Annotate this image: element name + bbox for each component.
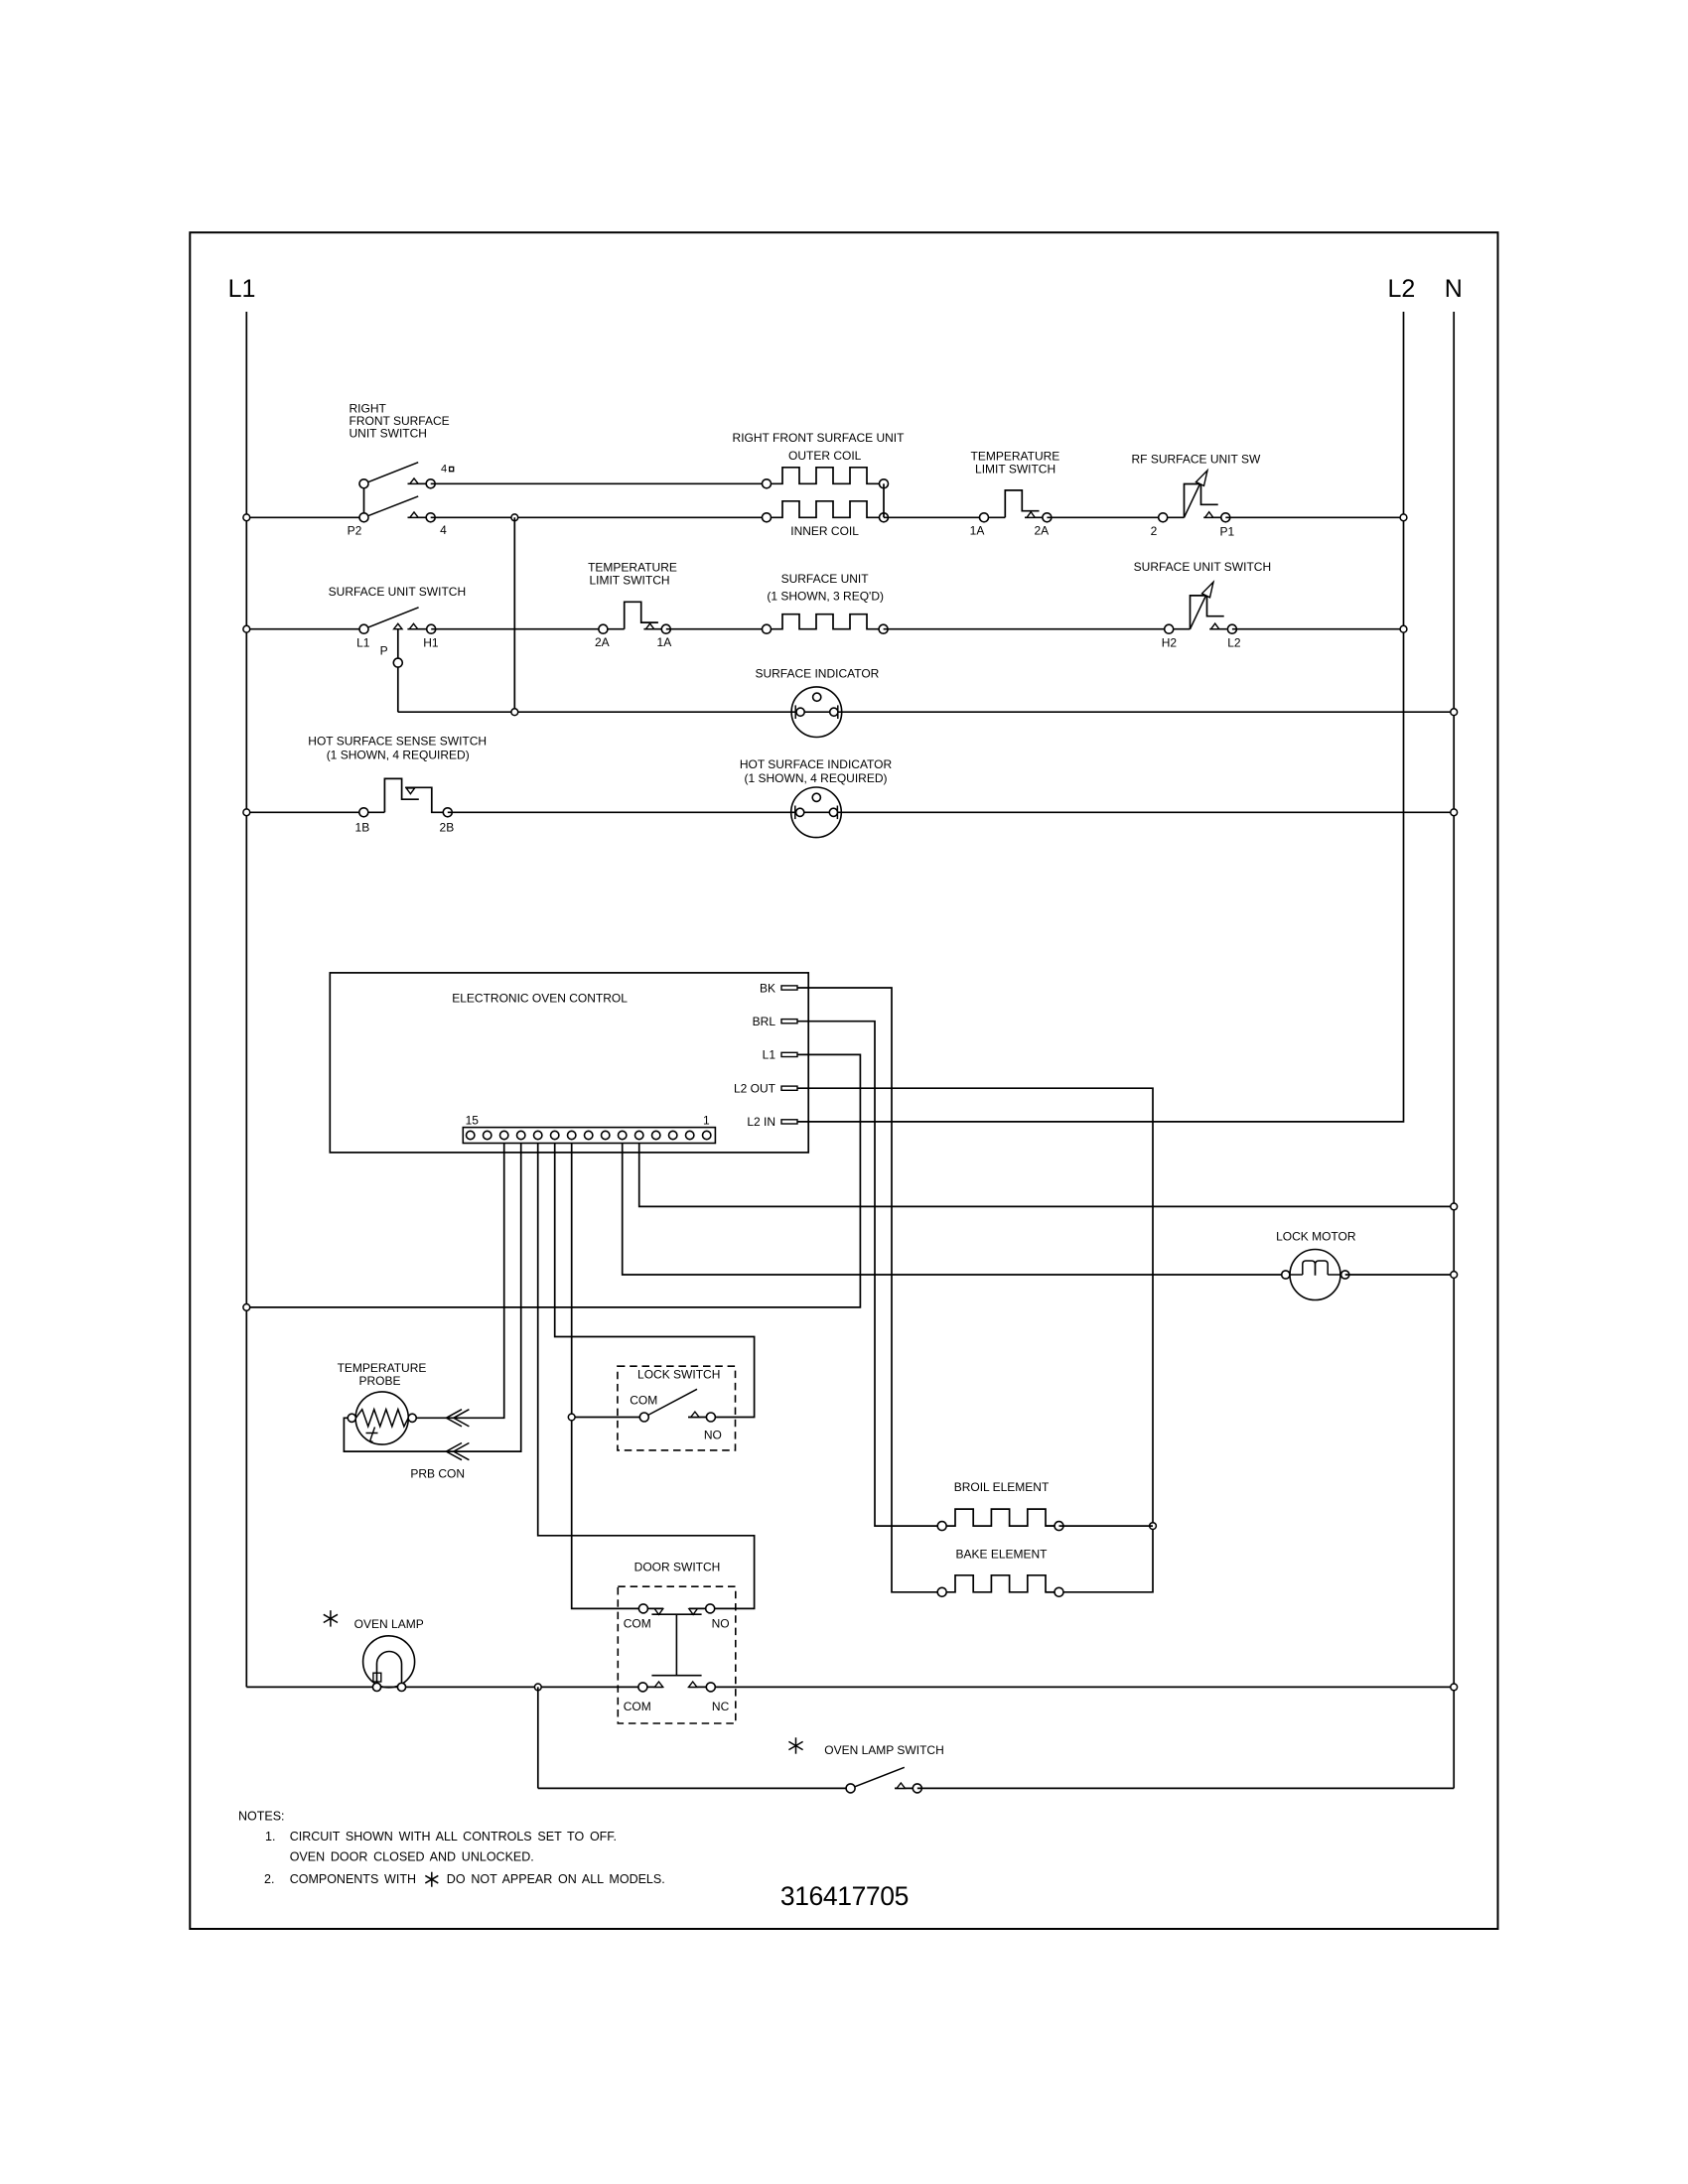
terminal H2 (1165, 624, 1174, 633)
svg-text:H2: H2 (1162, 636, 1178, 650)
asterisk oven lamp switch (795, 1737, 797, 1753)
switch surface unit switch right (1169, 628, 1190, 630)
svg-text:LOCK MOTOR: LOCK MOTOR (1276, 1230, 1356, 1244)
terminal EOC BRL (781, 1020, 797, 1024)
terminal EOC L2 OUT (781, 1086, 797, 1090)
terminal lock COM (639, 1413, 648, 1422)
svg-text:COMPONENTS WITH: COMPONENTS WITH (290, 1872, 416, 1886)
terminal EOC L2 IN (781, 1120, 797, 1124)
wire 1A to surface unit coil (666, 628, 767, 630)
terminal P (393, 658, 402, 667)
svg-text:DO NOT APPEAR ON ALL MODELS.: DO NOT APPEAR ON ALL MODELS. (447, 1872, 665, 1886)
box electronic oven control (330, 973, 808, 1153)
svg-text:RIGHT FRONT SURFACE UNIT: RIGHT FRONT SURFACE UNIT (733, 431, 906, 445)
door switch actuator (651, 1613, 701, 1615)
terminal probe left (348, 1414, 355, 1422)
svg-text:NOTES:: NOTES: (238, 1810, 285, 1824)
svg-text:P1: P1 (1219, 525, 1234, 539)
junction L1 row1 (243, 514, 250, 521)
switch S1 lower pole blade (364, 496, 419, 517)
wire P1 to L2 bus (1225, 516, 1403, 518)
svg-text:UNIT SWITCH: UNIT SWITCH (350, 426, 427, 440)
terminal oven lamp right (397, 1683, 405, 1691)
junction N y1215 (1451, 1203, 1458, 1210)
wire 4 to inner coil (431, 516, 767, 518)
terminal lock motor right (1341, 1271, 1349, 1279)
svg-text:1A: 1A (970, 524, 985, 538)
switch hot surface sense switch (363, 811, 384, 813)
resistor inner coil (767, 501, 883, 518)
wire oven lamp row (246, 1686, 662, 1688)
junction lock row pin7 (568, 1414, 575, 1421)
junction broil L2 (1150, 1523, 1157, 1530)
svg-text:L1: L1 (763, 1048, 776, 1062)
lamp hot surface indicator (791, 787, 842, 838)
svg-text:NC: NC (712, 1700, 730, 1713)
svg-text:HOT SURFACE INDICATOR: HOT SURFACE INDICATOR (740, 757, 893, 771)
wire broil right to junction (1059, 1525, 1154, 1527)
terminal lock motor left (1282, 1271, 1290, 1279)
terminal P1 (1221, 513, 1230, 522)
svg-text:RF SURFACE UNIT SW: RF SURFACE UNIT SW (1132, 452, 1261, 466)
svg-text:(1 SHOWN, 3 REQ'D): (1 SHOWN, 3 REQ'D) (767, 589, 884, 603)
svg-text:HOT SURFACE SENSE SWITCH: HOT SURFACE SENSE SWITCH (308, 735, 487, 749)
connector chevrons lower (446, 1443, 462, 1460)
contact triangle door lower NC (689, 1682, 697, 1687)
svg-text:TEMPERATURE: TEMPERATURE (971, 450, 1060, 464)
wire L1 bus (245, 312, 247, 1687)
svg-text:BK: BK (760, 981, 775, 995)
wire H1 to 2A row2 (431, 628, 603, 630)
wire L2 bus (797, 312, 1404, 1122)
svg-text:(1 SHOWN, 4 REQUIRED): (1 SHOWN, 4 REQUIRED) (744, 771, 887, 785)
resistor bake element (942, 1575, 1059, 1592)
svg-text:COM: COM (624, 1617, 651, 1631)
junction row3 x518 (511, 709, 518, 716)
junction L1 x248 y1317 (243, 1304, 250, 1311)
svg-text:TEMPERATURE: TEMPERATURE (338, 1361, 427, 1375)
svg-text:2A: 2A (1034, 524, 1049, 538)
terminal bake left (937, 1587, 946, 1596)
terminal broil left (937, 1522, 946, 1531)
resistor temperature probe (355, 1392, 408, 1444)
contact triangle door upper COM (654, 1609, 662, 1615)
svg-text:OUTER COIL: OUTER COIL (788, 449, 862, 463)
wire L2 contact to L2 bus (1232, 628, 1404, 630)
junction L1 row4 (243, 809, 250, 816)
svg-text:PROBE: PROBE (358, 1374, 400, 1388)
terminal 2A row1 (1043, 513, 1052, 522)
svg-text:DOOR SWITCH: DOOR SWITCH (634, 1560, 721, 1573)
wire lock row feed (572, 1417, 640, 1419)
junction N lock motor (1451, 1272, 1458, 1279)
terminal door upper COM (638, 1604, 647, 1613)
svg-text:OVEN LAMP: OVEN LAMP (354, 1617, 424, 1631)
terminal S1 upper pole (359, 479, 368, 488)
svg-text:NO: NO (712, 1617, 730, 1631)
switch temperature limit switch row2 (603, 628, 624, 630)
contact triangle H1 (407, 628, 426, 630)
terminal P2 (359, 513, 368, 522)
connector chevrons upper (446, 1410, 462, 1427)
junction L1 row2 (243, 625, 250, 632)
terminal door upper NO (706, 1604, 715, 1613)
terminal surface unit left (763, 624, 772, 633)
svg-text:BAKE ELEMENT: BAKE ELEMENT (955, 1548, 1048, 1562)
terminal door lower NC (706, 1683, 715, 1692)
wire row3 P lead to N (398, 711, 1454, 713)
svg-text:2.: 2. (264, 1872, 274, 1886)
junction lamp row x542 (534, 1684, 541, 1691)
svg-text:L1: L1 (228, 275, 256, 303)
svg-text:OVEN DOOR CLOSED AND UNLOCKED.: OVEN DOOR CLOSED AND UNLOCKED. (290, 1849, 534, 1863)
terminal oven lamp left (372, 1683, 380, 1691)
terminal 2 (1159, 513, 1168, 522)
wire row1 junction down to row3 (513, 517, 515, 712)
svg-text:INNER COIL: INNER COIL (790, 524, 859, 538)
wire S1 pole link (363, 483, 365, 517)
terminal outer coil left (763, 479, 772, 488)
svg-text:LIMIT SWITCH: LIMIT SWITCH (975, 463, 1055, 477)
wire lamp row to lamp switch (537, 1687, 539, 1788)
wire row1 L1 to P2 (246, 516, 363, 518)
terminal surface unit right (879, 624, 888, 633)
svg-text:15: 15 (466, 1114, 480, 1128)
svg-text:1A: 1A (657, 635, 672, 649)
terminal broil right (1055, 1522, 1063, 1531)
wire EOC L1 to L1 bus (246, 1054, 860, 1307)
wire inner coil to 1A (884, 516, 984, 518)
terminal inner coil left (763, 513, 772, 522)
svg-text:1: 1 (703, 1114, 710, 1128)
box door switch dashed (618, 1586, 736, 1723)
svg-text:BROIL ELEMENT: BROIL ELEMENT (954, 1480, 1050, 1494)
lamp oven lamp (363, 1636, 415, 1688)
svg-text:ELECTRONIC OVEN CONTROL: ELECTRONIC OVEN CONTROL (452, 992, 628, 1006)
motor lock motor (1290, 1250, 1340, 1300)
svg-text:COM: COM (630, 1394, 657, 1408)
svg-text:P2: P2 (348, 524, 362, 538)
terminal inner coil right (880, 513, 889, 522)
wire 2A to RF switch (1047, 516, 1163, 518)
terminal EOC L1 (781, 1052, 797, 1056)
wire lock motor to N (1345, 1274, 1455, 1276)
wire pin11 to N (639, 1144, 1454, 1207)
svg-text:L1: L1 (356, 636, 370, 650)
svg-text:1.: 1. (265, 1830, 275, 1843)
switch oven lamp switch blade (851, 1767, 905, 1788)
svg-text:2B: 2B (440, 820, 455, 834)
wire pin10 to lock motor (623, 1144, 1282, 1276)
wire pin5 to door switch NO (538, 1144, 755, 1609)
svg-text:LOCK SWITCH: LOCK SWITCH (637, 1368, 720, 1382)
svg-text:LIMIT SWITCH: LIMIT SWITCH (589, 574, 669, 588)
contact triangle door lower COM (654, 1682, 662, 1687)
terminal 4a (426, 479, 435, 488)
terminal probe right (408, 1414, 416, 1422)
wire 4a to outer coil (431, 482, 767, 484)
svg-text:L2 IN: L2 IN (747, 1115, 775, 1129)
wire P lead (397, 629, 399, 713)
svg-text:316417705: 316417705 (780, 1881, 909, 1911)
wire pin3 to probe (417, 1144, 504, 1419)
svg-text:L2: L2 (1227, 636, 1241, 650)
svg-text:CIRCUIT SHOWN WITH ALL CONTROL: CIRCUIT SHOWN WITH ALL CONTROLS SET TO O… (290, 1830, 617, 1843)
svg-text:L2 OUT: L2 OUT (734, 1082, 776, 1096)
contact triangle door upper NO (689, 1609, 697, 1615)
junction N lamp row (1451, 1684, 1458, 1691)
terminal 1A row1 (980, 513, 989, 522)
terminal door lower COM (638, 1683, 647, 1692)
wire surface unit to H2 (884, 628, 1170, 630)
lamp surface indicator (791, 687, 842, 738)
svg-text:SURFACE INDICATOR: SURFACE INDICATOR (755, 667, 879, 681)
wire pin7 to door switch COM (572, 1144, 643, 1609)
terminal 4 (426, 513, 435, 522)
svg-text:2A: 2A (595, 635, 610, 649)
svg-text:L2: L2 (1387, 275, 1415, 303)
terminal 1A row2 (661, 624, 670, 633)
terminal EOC BK (781, 986, 797, 990)
connector strip (463, 1128, 715, 1144)
box lock switch dashed (618, 1366, 736, 1450)
terminal lamp switch right (913, 1784, 921, 1793)
svg-text:SURFACE UNIT SWITCH: SURFACE UNIT SWITCH (1134, 560, 1271, 574)
junction L2 row2 (1400, 625, 1407, 632)
svg-text:4: 4 (440, 523, 447, 537)
switch lock switch blade (644, 1389, 697, 1417)
contact triangle lamp switch (895, 1787, 913, 1789)
wire 2B to indicator to N (448, 811, 1454, 813)
svg-text:TEMPERATURE: TEMPERATURE (588, 560, 677, 574)
resistor surface unit coil (767, 614, 883, 629)
terminal H1 (427, 624, 436, 633)
wire L2 OUT to elements (797, 1088, 1153, 1592)
contact triangle lock NO (688, 1417, 707, 1419)
asterisk oven lamp (330, 1610, 332, 1626)
wire N bus (1453, 312, 1455, 1788)
terminal L1 row2 (359, 624, 368, 633)
wire BK to bake element (797, 988, 942, 1592)
contact triangle 4 (408, 516, 427, 518)
junction N row3 (1451, 709, 1458, 716)
svg-text:OVEN LAMP SWITCH: OVEN LAMP SWITCH (824, 1743, 943, 1757)
junction row1 x518 (511, 514, 518, 521)
junction N row4 (1451, 809, 1458, 816)
wire pin4 to probe return (344, 1144, 520, 1452)
svg-text:H1: H1 (423, 636, 439, 650)
wire row2 L1 to switch (246, 628, 363, 630)
switch S1 upper pole blade (364, 463, 419, 484)
svg-text:1B: 1B (355, 820, 370, 834)
switch S2 blade (364, 608, 419, 629)
wire BRL to broil element (797, 1022, 942, 1526)
svg-text:SURFACE UNIT: SURFACE UNIT (781, 572, 870, 586)
connector strip pins (467, 1131, 475, 1139)
contact triangle 4a (408, 482, 427, 484)
wire door upper COM stub (643, 1607, 663, 1609)
junction L2 row1 (1400, 514, 1407, 521)
switch RF surface unit sw (1163, 516, 1184, 518)
terminal 1B (359, 808, 368, 817)
wire pin6 to lock switch NO (555, 1144, 755, 1418)
terminal 2B (443, 808, 452, 817)
terminal L2 row2 (1227, 624, 1236, 633)
wire door upper NO stub (689, 1607, 710, 1609)
asterisk note (431, 1872, 433, 1887)
wire row4 L1 to 1B (246, 811, 363, 813)
svg-text:N: N (1445, 275, 1463, 303)
svg-text:SURFACE UNIT SWITCH: SURFACE UNIT SWITCH (329, 585, 466, 599)
terminal bake right (1055, 1587, 1063, 1596)
wire coil terminals link (883, 483, 885, 517)
thermistor tail mark (366, 1428, 378, 1442)
svg-text:COM: COM (624, 1700, 651, 1713)
svg-text:(1 SHOWN, 4 REQUIRED): (1 SHOWN, 4 REQUIRED) (327, 749, 470, 762)
svg-text:PRB CON: PRB CON (410, 1467, 465, 1481)
switch temperature limit switch row1 (984, 516, 1005, 518)
svg-text:NO: NO (704, 1428, 722, 1441)
wire lamp switch to N (917, 1787, 1454, 1789)
terminal 2A row2 (599, 624, 608, 633)
svg-text:P: P (380, 644, 388, 658)
svg-text:2: 2 (1151, 524, 1158, 538)
resistor outer coil (767, 468, 883, 484)
terminal outer coil right (880, 479, 889, 488)
terminal lock NO (706, 1413, 715, 1422)
resistor broil element (942, 1509, 1059, 1526)
terminal lamp switch left (846, 1784, 855, 1793)
contact triangle P (394, 623, 402, 628)
svg-text:4: 4 (441, 463, 447, 475)
svg-text:BRL: BRL (753, 1015, 776, 1028)
